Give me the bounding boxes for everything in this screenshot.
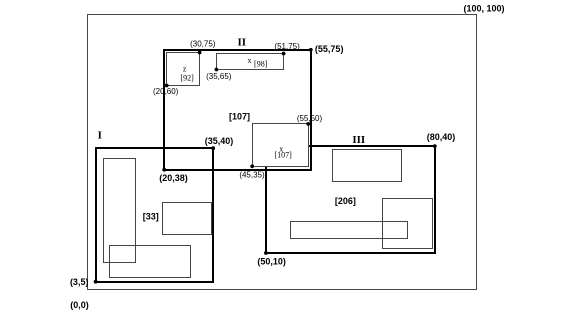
svg-text:[92]: [92] bbox=[180, 73, 194, 82]
svg-text:[206]: [206] bbox=[335, 196, 356, 206]
svg-text:(50,10): (50,10) bbox=[257, 257, 286, 267]
svg-text:(55,75): (55,75) bbox=[315, 44, 344, 54]
rectangle I bbox=[96, 148, 213, 282]
svg-text:(51,75): (51,75) bbox=[274, 42, 300, 51]
corner dot (20,38) bbox=[162, 168, 166, 172]
corner dot (20,60) bbox=[165, 84, 169, 88]
svg-text:x: x bbox=[248, 56, 252, 65]
svg-text:II: II bbox=[238, 36, 247, 48]
corner dot (50,10) bbox=[264, 251, 268, 255]
corner dot (3,5) bbox=[94, 280, 98, 284]
svg-text:(80,40): (80,40) bbox=[427, 132, 456, 142]
wide rect inside I bbox=[110, 246, 191, 278]
corner dot (30,75) bbox=[198, 51, 202, 55]
svg-text:(35,40): (35,40) bbox=[205, 136, 234, 146]
svg-text:(20,60): (20,60) bbox=[153, 87, 179, 96]
svg-text:(35,65): (35,65) bbox=[206, 72, 232, 81]
svg-text:III: III bbox=[352, 134, 365, 146]
rect z[92] bbox=[167, 53, 200, 86]
corner dot (45,35) bbox=[250, 164, 254, 168]
svg-text:(20,38): (20,38) bbox=[159, 173, 188, 183]
corner dot (80,40) bbox=[433, 144, 437, 148]
corner dot (55,50) bbox=[306, 122, 310, 126]
svg-text:(3,5): (3,5) bbox=[70, 277, 89, 287]
svg-text:z: z bbox=[183, 65, 187, 74]
rectangle III bbox=[266, 146, 435, 253]
svg-text:I: I bbox=[98, 130, 102, 142]
corner dot (35,40) bbox=[211, 146, 215, 150]
svg-text:(45,35): (45,35) bbox=[239, 170, 265, 179]
rectangle II bbox=[164, 50, 311, 170]
tall rect inside I bbox=[104, 159, 136, 263]
rect [206] bbox=[383, 199, 433, 249]
svg-text:(55,50): (55,50) bbox=[297, 114, 323, 123]
svg-text:(100, 100): (100, 100) bbox=[463, 4, 504, 14]
corner dot (51,75) bbox=[282, 52, 286, 56]
svg-text:[98]: [98] bbox=[254, 59, 268, 68]
rect [33] bbox=[163, 203, 212, 235]
svg-text:(30,75): (30,75) bbox=[190, 39, 216, 48]
outer frame (0,0)-(100,100) bbox=[88, 15, 477, 290]
rect x[98] bbox=[217, 54, 284, 70]
wide rect inside III bbox=[291, 222, 408, 239]
top rect inside III bbox=[333, 150, 402, 182]
svg-text:[107]: [107] bbox=[274, 151, 292, 160]
corner dot (55,75) bbox=[309, 48, 313, 52]
corner dot (35,65) bbox=[215, 68, 219, 72]
svg-text:[107]: [107] bbox=[229, 112, 250, 122]
svg-text:[33]: [33] bbox=[143, 212, 159, 222]
rect x[107] (white filled) bbox=[253, 124, 309, 167]
svg-text:(0,0): (0,0) bbox=[70, 300, 89, 310]
